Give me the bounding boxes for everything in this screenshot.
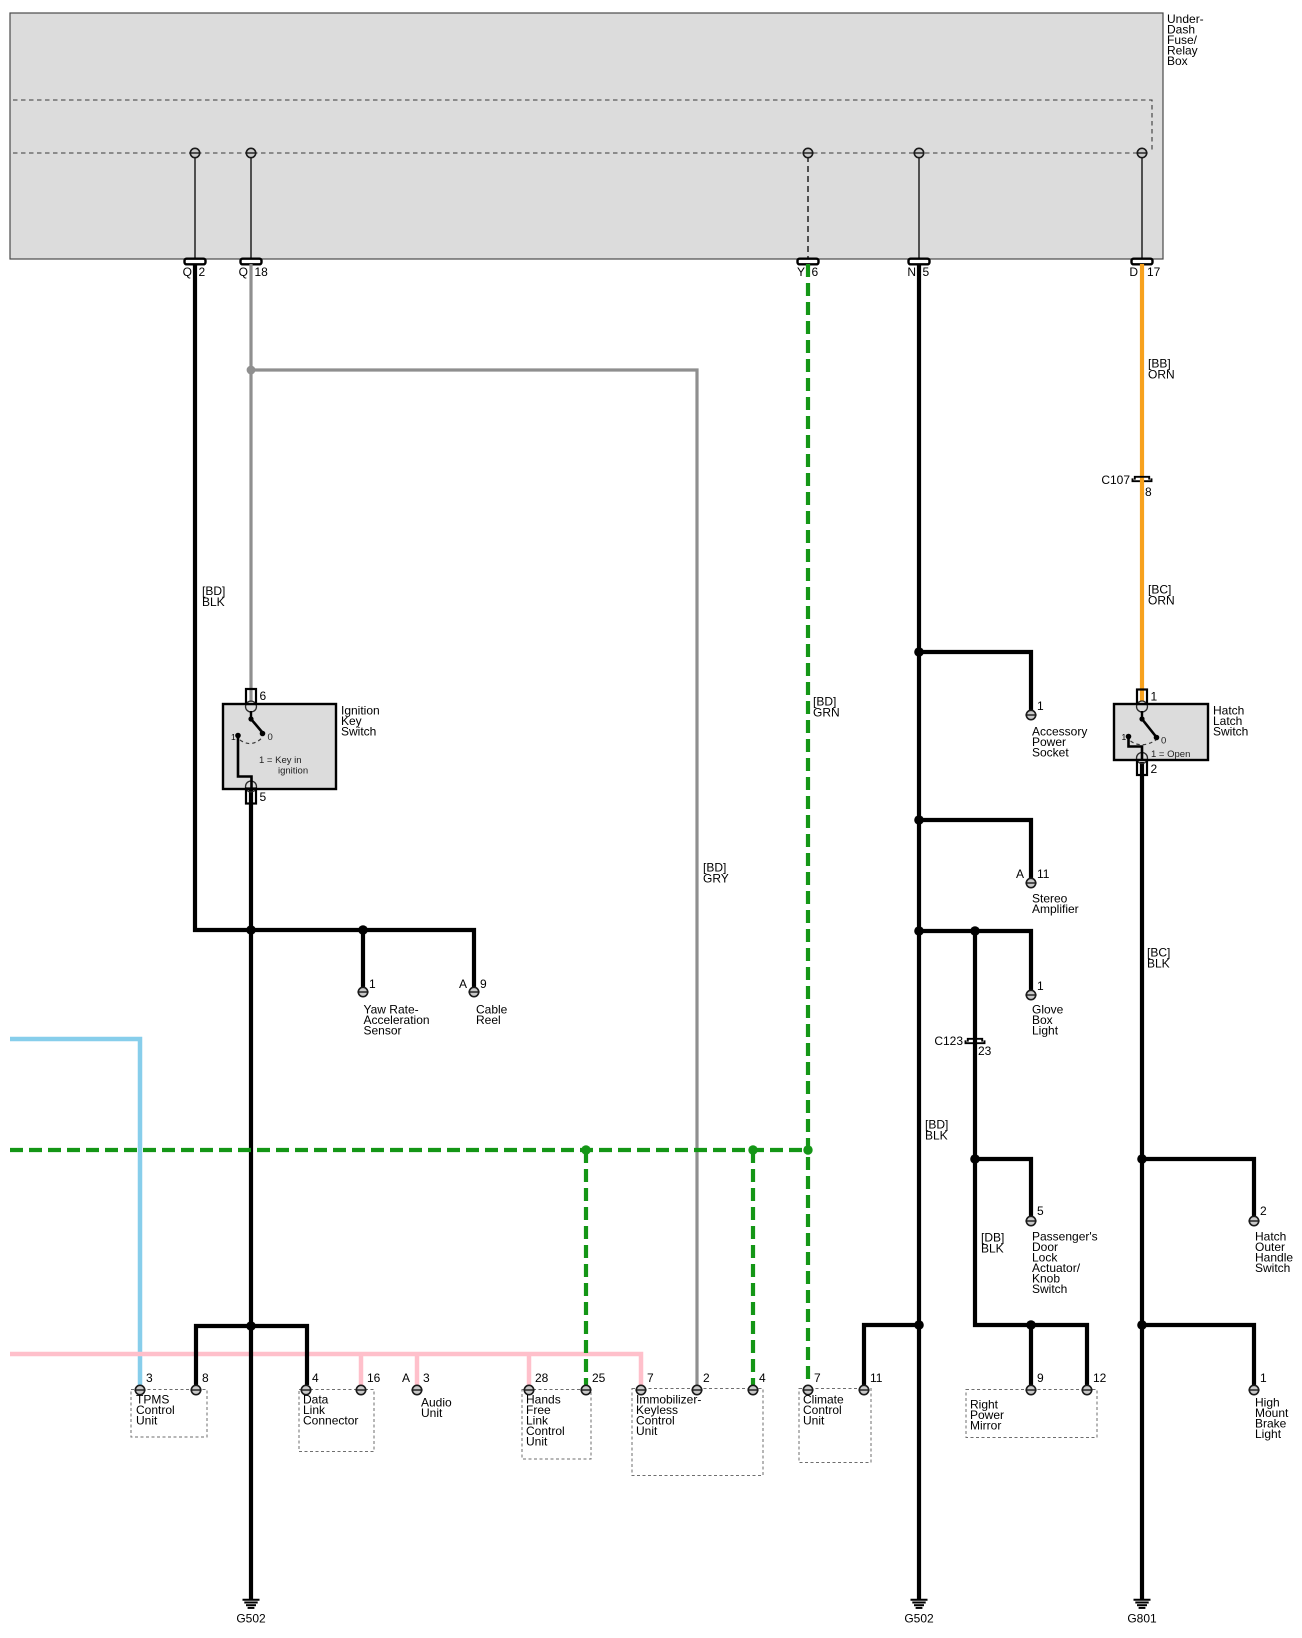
ignition switch note 1 = Key in ignition [259,755,308,777]
terminal TPMS pin 3 [134,1385,145,1394]
terminal stereo amplifier pin A11 [1025,878,1036,887]
terminal climate pin 7 [802,1385,813,1394]
svg-text:Switch: Switch [1255,1261,1290,1275]
fuse box internal lead to Y16 (dashed) [807,156,809,259]
junction right power mirror pin 9 branch [1026,1320,1036,1330]
label [DB] BLK [981,1231,1004,1256]
svg-text:G502: G502 [904,1612,934,1626]
terminal high mount brake light pin 1 [1248,1385,1259,1394]
yaw rate-acceleration sensor label [364,1003,430,1038]
junction glove box branch [914,926,924,936]
terminal DLC pin 4 [300,1385,311,1394]
label [BD] GRN [813,695,840,720]
svg-text:1: 1 [1037,699,1044,713]
svg-text:5: 5 [923,265,930,279]
ignition key switch U1 body [223,704,336,789]
svg-text:1: 1 [231,732,236,742]
svg-text:Reel: Reel [476,1013,501,1027]
junction accessory branch [914,647,924,657]
hatch latch pin 1 connector [1137,690,1148,713]
svg-text:28: 28 [535,1371,549,1385]
label [BD] GRY [703,861,729,886]
ground G801 [1134,1600,1151,1608]
wire black branch to hatch outer handle switch [1142,1159,1254,1216]
svg-text:BLK: BLK [925,1129,948,1143]
svg-text:5: 5 [1037,1204,1044,1218]
hatch latch pin 2 connector [1137,753,1148,776]
pin label Q2 [183,265,206,279]
svg-text:16: 16 [367,1371,381,1385]
wire black horizontal to yaw sensor / cable reel [193,930,474,987]
wire orange D17 [BB] ORN to C107 [1140,264,1144,479]
svg-text:Connector: Connector [303,1414,358,1428]
svg-text:Light: Light [1032,1024,1059,1038]
fuse box terminal above Q18 [245,148,256,157]
svg-text:Sensor: Sensor [364,1024,402,1038]
svg-text:1 = Open: 1 = Open [1151,749,1190,760]
wire black ignition pin 5 to G502 [249,790,253,1599]
terminal right power mirror pin 12 [1081,1385,1092,1394]
label [BD] BLK (Q2) [202,584,225,609]
svg-text:4: 4 [759,1371,766,1385]
svg-text:Y: Y [797,265,805,279]
wire black branch to glove box light [919,931,1031,990]
terminal HFL pin 25 [580,1385,591,1394]
wire pink stub to HFL pin 28 [527,1354,532,1385]
svg-text:0: 0 [268,732,273,743]
svg-text:6: 6 [812,265,819,279]
svg-text:2: 2 [1151,762,1158,776]
wire black branch to climate control pin 11 [864,1325,919,1385]
svg-text:Switch: Switch [1213,725,1248,739]
ignition switch travel arc [240,738,262,744]
TPMS control unit dashed box [131,1390,207,1438]
svg-text:2: 2 [199,265,206,279]
svg-text:9: 9 [1037,1371,1044,1385]
svg-text:2: 2 [703,1371,710,1385]
svg-text:2: 2 [1260,1204,1267,1218]
connector pin D17 [1132,259,1153,265]
fuse box internal lead to Q18 [250,156,252,259]
label [BD] BLK (N5) [925,1118,948,1143]
svg-text:GRY: GRY [703,872,729,886]
terminal accessory power socket pin 1 [1025,710,1036,719]
hands free link control unit label [526,1393,565,1449]
hatch latch lever and contacts [1126,711,1160,760]
fuse box internal lead to N5 [918,156,920,259]
terminal HFL pin 28 [523,1385,534,1394]
svg-text:D: D [1129,265,1138,279]
data link connector dashed box [299,1390,374,1452]
pin number cable reel A 9 [459,977,487,991]
svg-text:ignition: ignition [278,766,308,777]
fuse box terminal above D17 [1136,148,1147,157]
label [BC] ORN [1148,583,1175,608]
svg-text:17: 17 [1147,265,1161,279]
pin label Y16 [797,265,819,279]
pin label N5 [907,265,929,279]
svg-text:BLK: BLK [981,1242,1004,1256]
svg-text:4: 4 [312,1371,319,1385]
svg-text:7: 7 [814,1371,821,1385]
svg-text:Unit: Unit [636,1424,658,1438]
svg-text:C107: C107 [1101,473,1130,487]
under-dash fuse/relay box [10,13,1163,259]
pin label Q18 [239,265,269,279]
junction hatch outer handle branch [1137,1154,1147,1164]
svg-text:G502: G502 [236,1612,266,1626]
wire pink stub to DLC pin 16 [359,1354,364,1385]
svg-text:5: 5 [260,790,267,804]
svg-text:G801: G801 [1127,1612,1157,1626]
ignition pin 6 connector [246,689,257,712]
ignition pin 5 connector [246,781,257,804]
svg-text:A: A [1016,867,1024,881]
terminal passenger door lock pin 5 [1025,1216,1036,1225]
audio unit label [421,1396,452,1421]
svg-text:3: 3 [423,1371,430,1385]
connector C107 [1133,477,1152,481]
svg-text:1: 1 [1037,979,1044,993]
label [BC] BLK [1147,946,1170,971]
terminal immobilizer pin 4 [747,1385,758,1394]
svg-text:Unit: Unit [803,1414,825,1428]
wire green dashed to HFL pin 25 [584,1150,588,1385]
svg-text:1: 1 [1122,732,1127,742]
ground G502 center [911,1600,928,1608]
terminal hatch outer handle switch pin 2 [1248,1216,1259,1225]
internal bus dashed line lower [13,152,1142,154]
svg-text:ORN: ORN [1148,368,1175,382]
passenger's door lock actuator/knob switch label [1032,1230,1098,1297]
wire black T-branch to TPMS pin 8 and DLC pin 4 [196,1326,307,1385]
svg-text:18: 18 [255,265,269,279]
terminal TPMS pin 8 [190,1385,201,1394]
fuse box internal lead to D17 [1141,156,1143,259]
connector C123 [966,1039,985,1043]
svg-text:1: 1 [1151,690,1158,704]
svg-text:6: 6 [260,689,267,703]
right power mirror label [970,1398,1004,1433]
right power mirror dashed box [966,1390,1097,1438]
hatch outer handle switch label [1255,1230,1293,1276]
svg-text:1: 1 [369,977,376,991]
junction climate pin 11 branch [914,1320,924,1330]
junction C123 branch [970,926,980,936]
svg-text:BLK: BLK [202,595,225,609]
terminal immobilizer pin 7 [635,1385,646,1394]
terminal climate pin 11 [858,1385,869,1394]
wire green dashed to immobilizer pin 4 [751,1150,755,1385]
wire black N5 to G502 [917,264,921,1599]
hatch latch switch label [1213,704,1248,739]
junction gray at Q18 branch [247,366,256,375]
climate control unit dashed box [799,1389,871,1463]
connector pin N5 [909,259,930,265]
ignition switch lever and contacts [235,711,265,789]
fuse box terminal above N5 [913,148,924,157]
terminal cable reel pin A9 [468,987,479,996]
data link connector label [303,1393,358,1428]
hands free link control unit dashed box [522,1390,591,1460]
svg-text:Box: Box [1167,54,1188,68]
svg-text:11: 11 [1037,867,1050,881]
connector pin Q2 [185,259,206,265]
wire black branch to accessory power socket [919,652,1031,710]
svg-text:Unit: Unit [526,1435,548,1449]
junction at ignition wire crossing [246,925,256,935]
svg-text:23: 23 [978,1044,992,1058]
svg-text:A: A [402,1371,410,1385]
svg-text:Switch: Switch [1032,1282,1067,1296]
terminal right power mirror pin 9 [1025,1385,1036,1394]
svg-text:8: 8 [202,1371,209,1385]
wire black branch to passenger's door lock pin 5 [975,1159,1031,1216]
fuse box internal lead to Q2 [194,156,196,259]
svg-text:A: A [459,977,467,991]
wire green dashed horizontal bus [10,1148,808,1152]
wire green dashed Y16 [BD] GRN to climate pin 7 [806,264,810,1385]
wire black branch to yaw sensor pin 1 [361,930,365,987]
junction at T-branch [246,1321,256,1331]
wire gray [BD] GRY branch to immobilizer pin 2 [251,370,697,1385]
svg-text:Socket: Socket [1032,746,1069,760]
junction at yaw sensor branch [358,925,368,935]
hatch latch travel arc [1131,740,1157,745]
svg-text:Amplifier: Amplifier [1032,902,1079,916]
wire pink stub to Audio pin 3 [415,1354,420,1385]
pin number stereo A 11 [1016,867,1050,881]
fuse box terminal above Y16 [802,148,813,157]
cable reel label [476,1003,508,1028]
wire black branch to high mount brake light [1142,1325,1254,1385]
svg-text:BLK: BLK [1147,957,1170,971]
svg-text:Light: Light [1255,1427,1282,1441]
svg-text:ORN: ORN [1148,594,1175,608]
internal bus dashed line upper [13,100,1152,153]
under-dash fuse/relay box label [1167,12,1204,68]
stereo amplifier label [1032,892,1079,917]
svg-text:Q: Q [183,265,192,279]
svg-text:11: 11 [870,1371,883,1385]
svg-text:9: 9 [480,977,487,991]
svg-text:7: 7 [647,1371,654,1385]
svg-text:Unit: Unit [136,1414,158,1428]
wire pink horizontal bus [10,1354,641,1385]
junction passenger door lock branch [970,1154,980,1164]
svg-text:N: N [907,265,916,279]
fuse box terminal above Q2 [189,148,200,157]
connector pin Q18 [241,259,262,265]
svg-text:Q: Q [239,265,248,279]
pin label D17 [1129,265,1160,279]
svg-text:1: 1 [1260,1371,1267,1385]
terminal DLC pin 16 [355,1385,366,1394]
wire gray Q18 to ignition key switch pin 6 [249,264,252,702]
hatch latch switch S2 body [1114,704,1208,760]
ground G502 left [243,1600,260,1608]
junction green climate wire [803,1145,812,1154]
svg-text:25: 25 [592,1371,606,1385]
wire black hatch latch pin 2 to G801 [1140,762,1144,1599]
climate control unit label [803,1393,844,1428]
wire black down through C123 to right power mirror [975,931,1087,1385]
junction stereo branch [914,815,924,825]
glove box light label [1032,1003,1064,1038]
connector pin Y16 [798,259,819,265]
wire orange [BC] ORN C107 to hatch latch switch pin 1 [1140,479,1144,701]
svg-text:0: 0 [1161,736,1166,747]
label [BB] ORN [1148,357,1175,382]
junction high mount brake light branch [1137,1320,1147,1330]
wire light blue to TPMS pin 3 [10,1039,140,1385]
svg-text:GRN: GRN [813,706,840,720]
immobilizer-keyless control unit dashed box [632,1389,763,1476]
svg-text:Switch: Switch [341,725,376,739]
terminal yaw rate sensor pin 1 [357,987,368,996]
pin number audio A 3 [402,1371,430,1385]
accessory power socket label [1032,725,1087,760]
terminal immobilizer pin 2 [691,1385,702,1394]
terminal glove box light pin 1 [1025,990,1036,999]
TPMS control unit label [136,1393,175,1428]
svg-text:C123: C123 [934,1034,963,1048]
svg-text:1 = Key in: 1 = Key in [259,755,302,766]
junction green HFL branch [581,1145,590,1154]
svg-text:3: 3 [146,1371,153,1385]
wire black branch to stereo amplifier [919,820,1031,878]
terminal audio unit pin A3 [411,1385,422,1394]
junction green immobilizer branch [748,1145,757,1154]
wire black branch to right power mirror pin 9 [1029,1325,1033,1385]
svg-text:Mirror: Mirror [970,1419,1001,1433]
immobilizer-keyless control unit label [636,1393,701,1439]
svg-text:8: 8 [1145,485,1152,499]
high mount brake light label [1255,1396,1289,1442]
wire black Q2 [BD] BLK down [193,264,197,932]
ignition key switch label [341,704,380,739]
svg-text:12: 12 [1093,1371,1107,1385]
svg-text:Unit: Unit [421,1406,443,1420]
